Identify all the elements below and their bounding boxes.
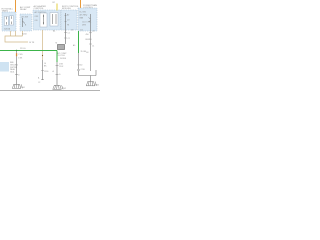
connector C1 tick: [64, 32, 67, 34]
svg-text:A7: A7: [67, 14, 69, 17]
svg-text:G101: G101: [21, 87, 25, 89]
wire orange into PCM: [80, 0, 82, 8]
connector tick lower: [56, 74, 59, 76]
wire gray from BCM: [65, 30, 67, 44]
ground G202: [53, 85, 64, 89]
wire tan from relay: [22, 31, 24, 36]
svg-text:G305: G305: [95, 85, 99, 87]
ticks on BCM internal wire: [65, 16, 67, 22]
connector C2 tick: [64, 37, 67, 39]
label above PCM box: [83, 4, 98, 9]
labels on center wire: [38, 63, 48, 80]
wire tan from fuse 1: [10, 31, 12, 36]
fuse block box (underhood): [2, 12, 16, 31]
fuse F2: [10, 16, 14, 25]
svg-text:RELAY: RELAY: [20, 8, 27, 11]
relay contacts: [22, 18, 24, 27]
svg-text:DIODE: DIODE: [60, 58, 67, 60]
svg-text:B+ IGN: B+ IGN: [80, 12, 87, 14]
svg-text:C200: C200: [44, 71, 48, 73]
wire tan from fuse 2: [15, 31, 17, 36]
BCM internal wire: [65, 13, 67, 30]
label HOT AT ALL TIMES (top left): [2, 8, 14, 13]
relay box B: [20, 14, 32, 31]
label above relay box: [20, 6, 31, 11]
label compressor: [57, 52, 67, 60]
label rows right side: [86, 31, 95, 55]
svg-text:A4: A4: [53, 30, 55, 33]
label above BCM box: [62, 6, 79, 10]
connector tick C102: [56, 65, 59, 67]
svg-text:S204: S204: [22, 34, 26, 36]
svg-text:G101: G101: [10, 72, 14, 74]
ground bus: [79, 75, 97, 77]
note box (blue): [0, 62, 9, 72]
background: [0, 0, 100, 100]
wire dark down from junction: [16, 51, 18, 85]
svg-text:22 DG: 22 DG: [20, 48, 26, 50]
switch S1: [40, 13, 47, 27]
svg-text:G3: G3: [86, 52, 88, 54]
connector tick C1 on PCM wire: [89, 32, 92, 34]
svg-text:CLU CTRL: CLU CTRL: [82, 22, 91, 24]
labels on clutch ground wire: [53, 63, 64, 76]
ground G101: [12, 84, 23, 88]
wire gray continuation: [78, 53, 80, 69]
connector tick on left wire: [15, 74, 18, 76]
svg-text:C2: C2: [68, 38, 70, 40]
compressor clutch coil: [58, 45, 65, 50]
svg-text:A9: A9: [73, 44, 75, 47]
wire gray from PCM pin: [90, 31, 92, 71]
wire tan from control head: [42, 30, 44, 60]
svg-text:14 TN: 14 TN: [29, 42, 35, 44]
ground G305: [86, 82, 97, 86]
svg-text:A/C REQ: A/C REQ: [80, 14, 88, 17]
svg-text:B2: B2: [53, 2, 55, 4]
note text lines: [10, 62, 19, 74]
wire green down from clutch: [56, 51, 58, 63]
svg-text:D2: D2: [71, 30, 73, 32]
wire yellow into switch: [56, 4, 58, 11]
svg-text:E4: E4: [81, 30, 83, 32]
PCM driver: [90, 14, 92, 31]
control head box C: [33, 10, 61, 30]
wire green main: [0, 50, 57, 52]
PCM box E: [78, 8, 97, 31]
BCM box D: [61, 10, 77, 30]
svg-text:A/C SW: A/C SW: [22, 16, 29, 19]
svg-text:FAN: FAN: [80, 17, 84, 20]
wire orange feed into fuse block: [15, 0, 17, 12]
connector dot: [42, 55, 43, 56]
svg-text:450: 450: [86, 34, 89, 36]
svg-text:CLUTCH: CLUTCH: [57, 55, 65, 57]
svg-text:C1: C1: [68, 33, 70, 35]
svg-text:C105: C105: [18, 54, 22, 56]
svg-text:15A 10A: 15A 10A: [4, 28, 11, 31]
ground stub: [90, 76, 92, 82]
label above control head box: [34, 5, 47, 10]
svg-text:C2: C2: [38, 82, 40, 84]
svg-text:B 350: B 350: [78, 65, 83, 67]
fuse F1: [4, 16, 8, 25]
svg-text:J2: J2: [93, 31, 95, 33]
connector half tick at wire end: [41, 79, 44, 81]
inline connector orange: [16, 53, 17, 56]
wire green from PCM: [78, 31, 80, 53]
tick C200: [41, 70, 44, 72]
bottom rule: [0, 90, 100, 92]
wire black clutch ground: [56, 62, 58, 85]
svg-text:BK/WH: BK/WH: [86, 39, 93, 41]
connector C210: [78, 69, 80, 71]
wire lower from control head: [42, 60, 44, 80]
wire junction at green line: [16, 50, 17, 51]
svg-text:C1: C1: [92, 46, 94, 48]
wire tan bus: [5, 36, 28, 42]
switch S2: [50, 13, 58, 27]
svg-text:C210: C210: [81, 69, 85, 71]
connector tick C2 on PCM wire: [89, 43, 92, 45]
wire jog to bus: [95, 70, 97, 76]
wire to ground bus: [78, 71, 80, 76]
svg-text:G202: G202: [62, 88, 66, 90]
svg-text:C102: C102: [59, 66, 63, 68]
